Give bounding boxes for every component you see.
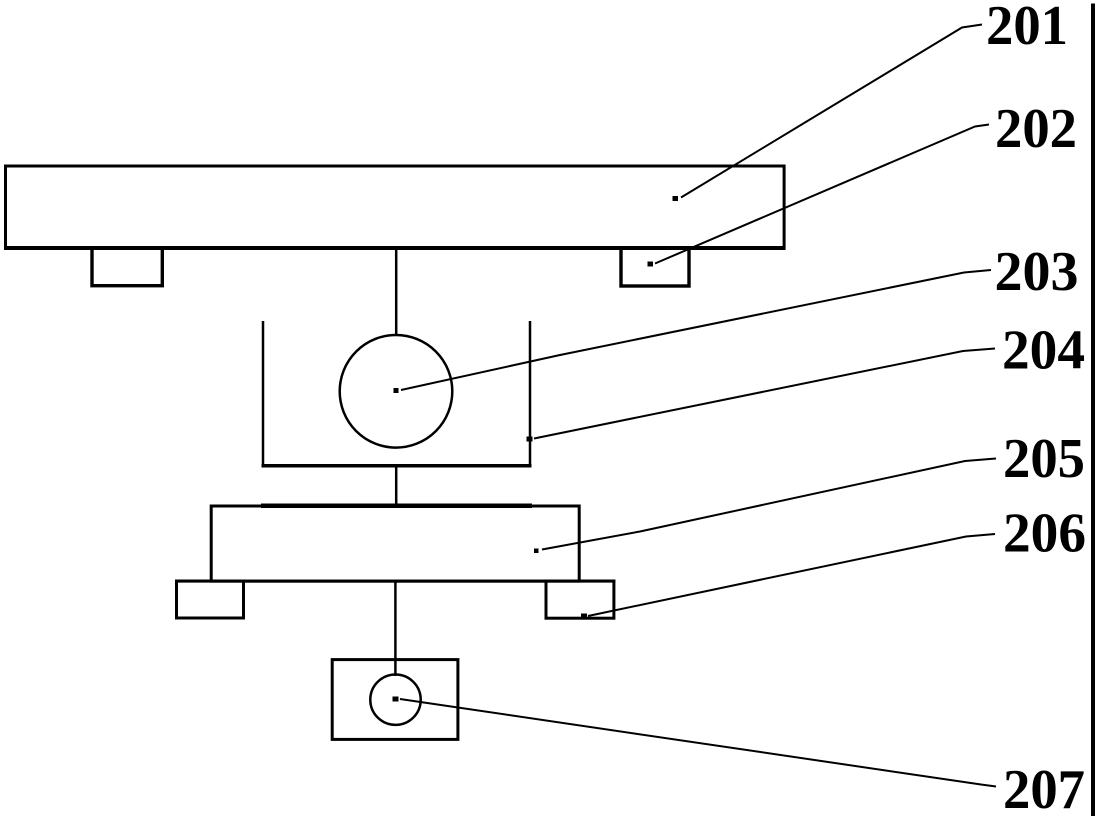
leader dot 207 [393,697,399,702]
top plate bottom edge (heavier) [4,246,786,250]
svg-text:202: 202 [995,98,1077,160]
base line across middle plate bottom and feet tops [175,580,615,583]
svg-text:203: 203 [995,241,1079,303]
page border bar (right edge) [1091,4,1095,816]
leader line 201 [681,25,982,198]
svg-text:201: 201 [986,0,1068,57]
wire: shaft from top plate to ball [395,250,398,337]
foot 202 right (under top plate) [621,248,689,286]
wire: shaft from container bottom to middle plate [395,465,398,506]
thick seat line on top of middle plate [261,504,532,509]
middle plate 205 [211,506,579,581]
leader line 202 [655,125,989,264]
ball 203 [340,335,453,448]
leader line 203 [401,270,991,390]
leader line 207 [400,699,996,787]
foot 202 left (under top plate) [92,248,162,286]
motor rotor circle [370,675,420,725]
motor housing 207 [332,660,458,740]
svg-text:207: 207 [1003,759,1085,816]
container 204 right wall [529,321,532,467]
leader line 206 [588,534,995,616]
svg-text:204: 204 [1002,320,1085,382]
leader dot 201 [673,196,679,201]
foot 206 left (under middle plate) [177,581,244,618]
leader dot 203 [394,388,399,393]
leader line 204 [534,349,995,439]
container 204 bottom [262,464,532,468]
svg-text:206: 206 [1003,503,1086,565]
foot 206 right (under middle plate) [546,581,614,618]
svg-text:205: 205 [1003,428,1085,490]
container 204 left wall [262,321,265,467]
leader dot 206 [581,614,587,619]
wire: shaft from middle plate to motor [394,581,397,676]
platform 201 (top plate) [6,166,785,248]
leader line 205 [542,459,996,550]
leader dot 204 [527,437,533,442]
leader dot 202 [648,262,654,267]
leader dot 205 [534,549,539,554]
